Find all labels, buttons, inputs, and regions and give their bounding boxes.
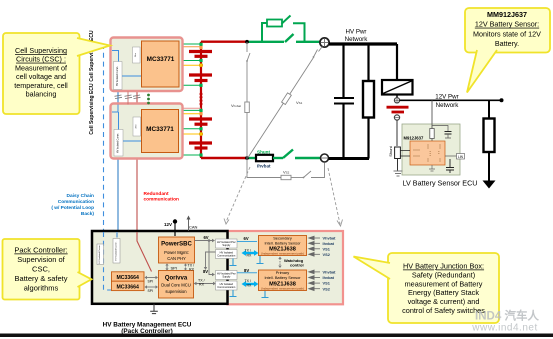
svg-text:MC33771: MC33771 xyxy=(146,126,174,133)
svg-text:algorithms: algorithms xyxy=(24,284,59,293)
HV isolated communication box 2 xyxy=(216,281,238,290)
svg-text:MC33664: MC33664 xyxy=(116,275,139,281)
svg-text:MM912J637: MM912J637 xyxy=(487,10,527,19)
svg-text:Xfmr: Xfmr xyxy=(136,124,138,129)
svg-text:LIN: LIN xyxy=(458,155,464,159)
precharge branch xyxy=(262,23,267,42)
wire inter-module salmon link xyxy=(127,92,129,105)
switch main contactor xyxy=(285,34,294,42)
svg-text:Supervision of: Supervision of xyxy=(17,255,65,264)
wire daisy-chain solid blue xyxy=(117,88,119,238)
switch HV- contactor xyxy=(283,150,293,159)
blue ground T symbols xyxy=(230,256,269,298)
svg-text:HV Pwr: HV Pwr xyxy=(346,29,367,36)
battery 12V xyxy=(387,106,409,109)
HV BMS ECU box (black) xyxy=(92,231,228,304)
wire comm to MC33771 xyxy=(122,75,142,77)
svg-text:12V Battery Sensor:: 12V Battery Sensor: xyxy=(475,20,539,29)
node 12V- xyxy=(394,115,399,120)
svg-text:M912J637: M912J637 xyxy=(404,136,424,141)
resistor 12V load xyxy=(488,100,490,118)
svg-text:HV Battery Junction Box:: HV Battery Junction Box: xyxy=(403,262,484,271)
LIN box xyxy=(445,155,457,157)
svg-text:HV Isolated: HV Isolated xyxy=(220,250,234,254)
CSC module 2 small transformer box xyxy=(133,117,141,136)
blue 6V supply line xyxy=(237,241,257,243)
input arrows secondary xyxy=(314,238,320,254)
svg-text:Cell Supervising: Cell Supervising xyxy=(15,46,67,55)
svg-text:VS1: VS1 xyxy=(296,100,303,105)
svg-text:Energy (Battery Stack: Energy (Battery Stack xyxy=(408,288,479,297)
svg-text:Xfmr: Xfmr xyxy=(135,53,137,58)
svg-text:VS2: VS2 xyxy=(323,286,331,291)
svg-text:Communication: Communication xyxy=(217,285,236,289)
svg-text:Power Mgmt:: Power Mgmt: xyxy=(164,250,189,255)
svg-text:Ihvbat: Ihvbat xyxy=(257,164,271,169)
dashed indicator line left xyxy=(226,167,250,222)
svg-text:Vhvbat: Vhvbat xyxy=(231,103,241,108)
battery cells ellipsis dots xyxy=(200,93,203,106)
HV junction box (pink) xyxy=(228,231,344,304)
comm1 to Qorivva plumbing xyxy=(206,252,216,268)
chip PowerSBC xyxy=(159,237,195,263)
comm2 to Qorivva plumbing xyxy=(196,283,214,285)
svg-text:voltage & current) and: voltage & current) and xyxy=(408,297,480,306)
callout Pack Controller xyxy=(3,239,92,300)
svg-text:CAN: CAN xyxy=(189,224,198,229)
chip Secondary M9Z1J638 xyxy=(259,236,307,256)
watchdog control arrow xyxy=(279,259,281,267)
wire daisy chain inside ECU (solid) xyxy=(116,232,118,238)
svg-text:Communication: Communication xyxy=(58,199,94,205)
wire HV bus top xyxy=(329,42,397,45)
measurement path VS2 xyxy=(247,158,325,178)
svg-text:Vhvbat: Vhvbat xyxy=(323,270,337,275)
chip MC33771 (module 1) xyxy=(142,41,180,87)
svg-text:Back): Back) xyxy=(81,211,94,217)
svg-text:RX: RX xyxy=(199,283,205,287)
HV isolated communication box 1 xyxy=(216,250,238,259)
svg-text:MC33771: MC33771 xyxy=(147,56,175,63)
comm box A in ECU xyxy=(97,244,104,265)
CSC module 1 blue elbow xyxy=(112,51,119,62)
12V supply into ECU xyxy=(173,219,177,223)
svg-text:VS1: VS1 xyxy=(323,281,331,286)
HV isolated pwr supply box 1 xyxy=(216,239,238,248)
callout HV Battery Junction Box xyxy=(354,253,500,323)
svg-text:6V: 6V xyxy=(203,235,208,240)
svg-text:PowerSBC: PowerSBC xyxy=(161,242,192,248)
node battery stack negative wire xyxy=(201,157,247,159)
svg-text:(Independent measurement path): (Independent measurement path) xyxy=(261,287,304,291)
svg-text:balancing: balancing xyxy=(26,90,57,99)
svg-text:Cell Supervising ECU: Cell Supervising ECU xyxy=(89,30,95,82)
svg-text:supervision: supervision xyxy=(165,289,187,294)
svg-text:Vhvbat: Vhvbat xyxy=(323,236,337,241)
svg-text:Battery & safety: Battery & safety xyxy=(15,274,68,283)
wire redundant communication xyxy=(136,64,138,232)
shunt resistor xyxy=(256,155,273,161)
wire 12V inside ECU xyxy=(174,232,176,236)
wire daisy chain inside ECU (dashed) xyxy=(104,232,112,290)
svg-text:RX: RX xyxy=(247,284,253,288)
TX/RX arrow PowerSBC-Qorivva xyxy=(185,265,187,269)
svg-text:(Independent measurement path): (Independent measurement path) xyxy=(261,251,304,255)
capacitor LV top xyxy=(445,132,452,135)
cell tap wires module 1 xyxy=(180,44,201,85)
svg-text:Dual Core MCU: Dual Core MCU xyxy=(161,283,191,288)
6V/8V plumbing xyxy=(195,240,214,242)
svg-text:Monitors state of 12V: Monitors state of 12V xyxy=(473,29,541,38)
svg-text:Network: Network xyxy=(436,102,460,109)
bottom border bar xyxy=(0,334,553,338)
chip Primary M9Z1J638 xyxy=(259,270,307,291)
svg-text:control of Safety switches: control of Safety switches xyxy=(402,306,485,315)
node HV+ terminal xyxy=(320,38,329,47)
wire comm to MC33771 (module 2) xyxy=(123,140,142,142)
ground chassis arrow xyxy=(483,181,496,189)
SPI arrows MC33664-Qorivva xyxy=(147,278,157,288)
svg-text:SPI: SPI xyxy=(148,280,154,284)
isolation capacitors between modules xyxy=(115,95,141,99)
capacitor LV bottom xyxy=(446,159,454,173)
cell tap wires module 2 xyxy=(180,108,201,155)
resistor precharge xyxy=(267,20,282,27)
LV battery sensor ECU box xyxy=(402,124,460,175)
svg-text:VS2: VS2 xyxy=(283,170,290,175)
SPI arrow PowerSBC-Qorivva xyxy=(166,265,168,269)
resistor VS2 xyxy=(281,175,291,179)
svg-text:LV Battery Sensor ECU: LV Battery Sensor ECU xyxy=(403,179,478,188)
svg-text:communication: communication xyxy=(144,196,180,202)
cyan TX/RX arrow 2 xyxy=(246,283,255,285)
resistor Vhvbat xyxy=(245,102,250,113)
svg-text:measurement of Battery: measurement of Battery xyxy=(405,279,483,288)
chip Qorivva xyxy=(159,271,194,299)
wire 12V power network xyxy=(400,99,502,101)
junction dot HV- xyxy=(245,156,249,160)
svg-text:12V: 12V xyxy=(164,222,172,227)
svg-text:Safety (Redundant): Safety (Redundant) xyxy=(412,270,475,279)
svg-text:HV Isolated Comm.: HV Isolated Comm. xyxy=(114,241,117,260)
measurement path Vhvbat xyxy=(247,42,250,158)
CAN arrow xyxy=(188,219,190,231)
svg-text:Supply: Supply xyxy=(222,275,231,279)
measurement path VS1 diagonal xyxy=(248,47,322,158)
svg-text:Network: Network xyxy=(345,36,369,43)
svg-text:Cell Supervising ECU: Cell Supervising ECU xyxy=(89,83,95,135)
svg-text:Intell. Battery Sensor: Intell. Battery Sensor xyxy=(264,240,301,245)
chip M912J637 xyxy=(410,141,445,165)
node HV- terminal xyxy=(321,154,329,162)
cell tap dots module 2 xyxy=(199,109,202,112)
ground LV xyxy=(394,171,403,176)
resistor HV load xyxy=(367,44,369,81)
blue 8V supply line xyxy=(237,272,257,274)
node battery stack positive wire xyxy=(201,41,246,43)
svg-text:MC33664: MC33664 xyxy=(116,284,139,290)
wire redundant comm inside ECU xyxy=(137,232,152,272)
svg-text:Intell. Battery Sensor: Intell. Battery Sensor xyxy=(264,275,301,280)
svg-text:Pack Controller:: Pack Controller: xyxy=(14,246,67,255)
cell tap dots module 1 xyxy=(199,43,202,46)
green ellipsis dots xyxy=(147,94,150,105)
svg-text:CSC,: CSC, xyxy=(32,265,50,274)
input arrows primary xyxy=(314,272,320,289)
svg-text:VS2: VS2 xyxy=(323,252,331,257)
node 12V+ xyxy=(394,98,399,103)
dashed indicator line right xyxy=(328,168,340,224)
svg-text:Qorivva: Qorivva xyxy=(165,276,188,282)
shunt LV xyxy=(395,147,401,159)
resistor LV input xyxy=(430,129,434,139)
svg-text:Supply: Supply xyxy=(222,243,231,247)
svg-text:HV Isolated Comm.: HV Isolated Comm. xyxy=(98,244,101,263)
svg-text:Ihvbat: Ihvbat xyxy=(323,275,335,280)
CSC module 2 box xyxy=(111,104,183,159)
svg-text:RX: RX xyxy=(247,254,253,258)
chip MC33771 (module 2) xyxy=(142,110,179,153)
svg-text:Redundant: Redundant xyxy=(144,191,169,197)
junction dot HV+ xyxy=(245,40,249,44)
svg-text:6V: 6V xyxy=(244,236,249,241)
wire HV+ green xyxy=(247,41,284,43)
DC/DC converter xyxy=(396,44,398,80)
svg-text:Shunt: Shunt xyxy=(257,150,270,155)
svg-text:TX /: TX / xyxy=(245,279,251,283)
callout Cell Supervising Circuits xyxy=(3,33,110,114)
wire battery stack column xyxy=(200,42,202,158)
svg-text:SPI: SPI xyxy=(148,289,154,293)
CSC module 2 isolated communication box xyxy=(114,130,123,157)
svg-text:HV Isolated Comm.: HV Isolated Comm. xyxy=(117,133,120,153)
HV isolated pwr supply box 2 xyxy=(216,271,238,280)
svg-text:Communication: Communication xyxy=(217,254,236,258)
svg-text:12V Pwr: 12V Pwr xyxy=(435,94,458,101)
wire HV- green with shunt xyxy=(247,157,256,159)
svg-text:HV Isolated Comm.: HV Isolated Comm. xyxy=(116,66,119,86)
CSC module 2 blue elbow xyxy=(112,105,119,130)
CSC module 1 isolated communication box xyxy=(114,62,123,90)
CSC module 1 box xyxy=(111,38,183,92)
svg-text:HV Isolated Pwr: HV Isolated Pwr xyxy=(217,271,236,275)
wire HV bus bottom xyxy=(329,157,370,160)
battery cells group 2 xyxy=(189,119,212,148)
svg-text:SPI: SPI xyxy=(171,266,177,271)
switch precharge xyxy=(282,16,291,24)
svg-text:Ihvbat: Ihvbat xyxy=(323,241,335,246)
battery cells group 1 xyxy=(189,52,212,81)
chip MC33664 x2 xyxy=(112,272,145,281)
svg-text:HV Isolated: HV Isolated xyxy=(220,282,234,286)
svg-text:VS1: VS1 xyxy=(323,246,331,251)
cyan TX/RX arrow 1 xyxy=(246,252,255,254)
label Redundant communication xyxy=(144,191,180,203)
ground below ECU xyxy=(150,304,158,314)
svg-text:Shunt: Shunt xyxy=(388,145,393,156)
callout MM912J637 xyxy=(465,8,550,93)
svg-text:Circuits (CSC) :: Circuits (CSC) : xyxy=(16,55,66,64)
svg-text:IND4 汽车人: IND4 汽车人 xyxy=(475,309,539,323)
svg-text:Battery.: Battery. xyxy=(495,39,519,48)
svg-text:( w/ Potential Loop: ( w/ Potential Loop xyxy=(51,205,94,211)
svg-text:TX /: TX / xyxy=(245,249,251,253)
svg-text:8V: 8V xyxy=(244,268,249,273)
svg-text:Daisy Chain: Daisy Chain xyxy=(67,193,95,199)
svg-text:temperature, cell: temperature, cell xyxy=(14,81,68,90)
svg-text:control: control xyxy=(290,262,304,267)
comm box B in ECU xyxy=(113,239,120,264)
capacitor HV link xyxy=(342,44,344,97)
svg-text:CAN PHY: CAN PHY xyxy=(167,256,186,261)
svg-text:HV Isolated Pwr: HV Isolated Pwr xyxy=(217,240,236,244)
svg-text:cell voltage and: cell voltage and xyxy=(16,72,66,81)
svg-text:RX: RX xyxy=(189,267,195,271)
resistor VS1 xyxy=(282,93,292,105)
wire daisy-chain dashed blue xyxy=(103,44,105,240)
label Daisy Chain Communication xyxy=(51,193,94,217)
svg-text:www.ind4.net: www.ind4.net xyxy=(471,323,537,334)
svg-text:Measurement of: Measurement of xyxy=(15,63,67,72)
CSC module 1 small transformer box xyxy=(133,47,141,63)
